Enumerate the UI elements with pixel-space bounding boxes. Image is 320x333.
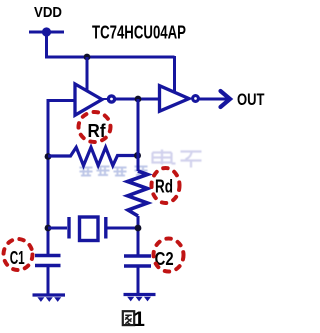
capacitor C2 top plate (124, 254, 151, 258)
svg-text:OUT: OUT (237, 91, 265, 109)
bubble U1 (108, 96, 114, 102)
Rf annotation circle (79, 112, 111, 142)
svg-text:1: 1 (133, 308, 145, 331)
resistor Rf (48, 147, 138, 165)
crystal X1 left electrode (67, 217, 70, 239)
capacitor C2 bottom plate (124, 264, 151, 268)
wire left rail (47, 99, 50, 256)
caption figure 1 glyph tu (123, 311, 134, 325)
wire to OUT (199, 98, 229, 101)
C1 annotation circle (4, 239, 33, 270)
inverter U2 (160, 86, 190, 112)
wire C1 to ground (47, 266, 50, 295)
wire crystal left lead (48, 227, 67, 230)
wire crystal right lead (108, 227, 139, 230)
capacitor C1 top plate (35, 254, 61, 258)
wire right rail upper (137, 99, 140, 171)
VDD terminal tick (29, 31, 64, 34)
arrow OUT (221, 91, 231, 107)
resistor Rd (128, 171, 148, 216)
junction crystal left (45, 225, 52, 232)
svg-text:Rd: Rd (155, 176, 173, 197)
junction top rail to U1 (84, 54, 91, 61)
wire right rail lower (137, 216, 140, 255)
inverter U1 (75, 84, 102, 115)
svg-text:VDD: VDD (34, 5, 62, 21)
wire top rail (45, 56, 175, 59)
wire C2 to ground (137, 266, 140, 293)
junction crystal right (135, 225, 142, 232)
junction Rf left (45, 153, 52, 160)
svg-text:TC74HCU04AP: TC74HCU04AP (92, 23, 186, 43)
C2 annotation circle (154, 239, 184, 272)
crystal X1 right electrode (104, 217, 107, 239)
ground C1 (33, 295, 66, 302)
capacitor C1 bottom plate (35, 264, 61, 268)
bubble U2 (193, 96, 199, 102)
crystal X1 body (80, 217, 99, 241)
VDD terminal dot (42, 27, 51, 36)
wire VDD down (45, 32, 48, 57)
junction Rf right (134, 152, 141, 159)
wire U1 out to U2 in (115, 98, 158, 101)
ground C2 (124, 295, 156, 302)
svg-text:C1: C1 (10, 248, 25, 268)
wire drop to U1 power (86, 57, 89, 90)
Rd annotation circle (152, 168, 180, 203)
wire U1 input (48, 99, 74, 102)
wire drop to U2 power (173, 56, 176, 91)
watermark row A (80, 167, 148, 177)
watermark dian-zi (153, 150, 202, 168)
junction node B (135, 96, 142, 103)
